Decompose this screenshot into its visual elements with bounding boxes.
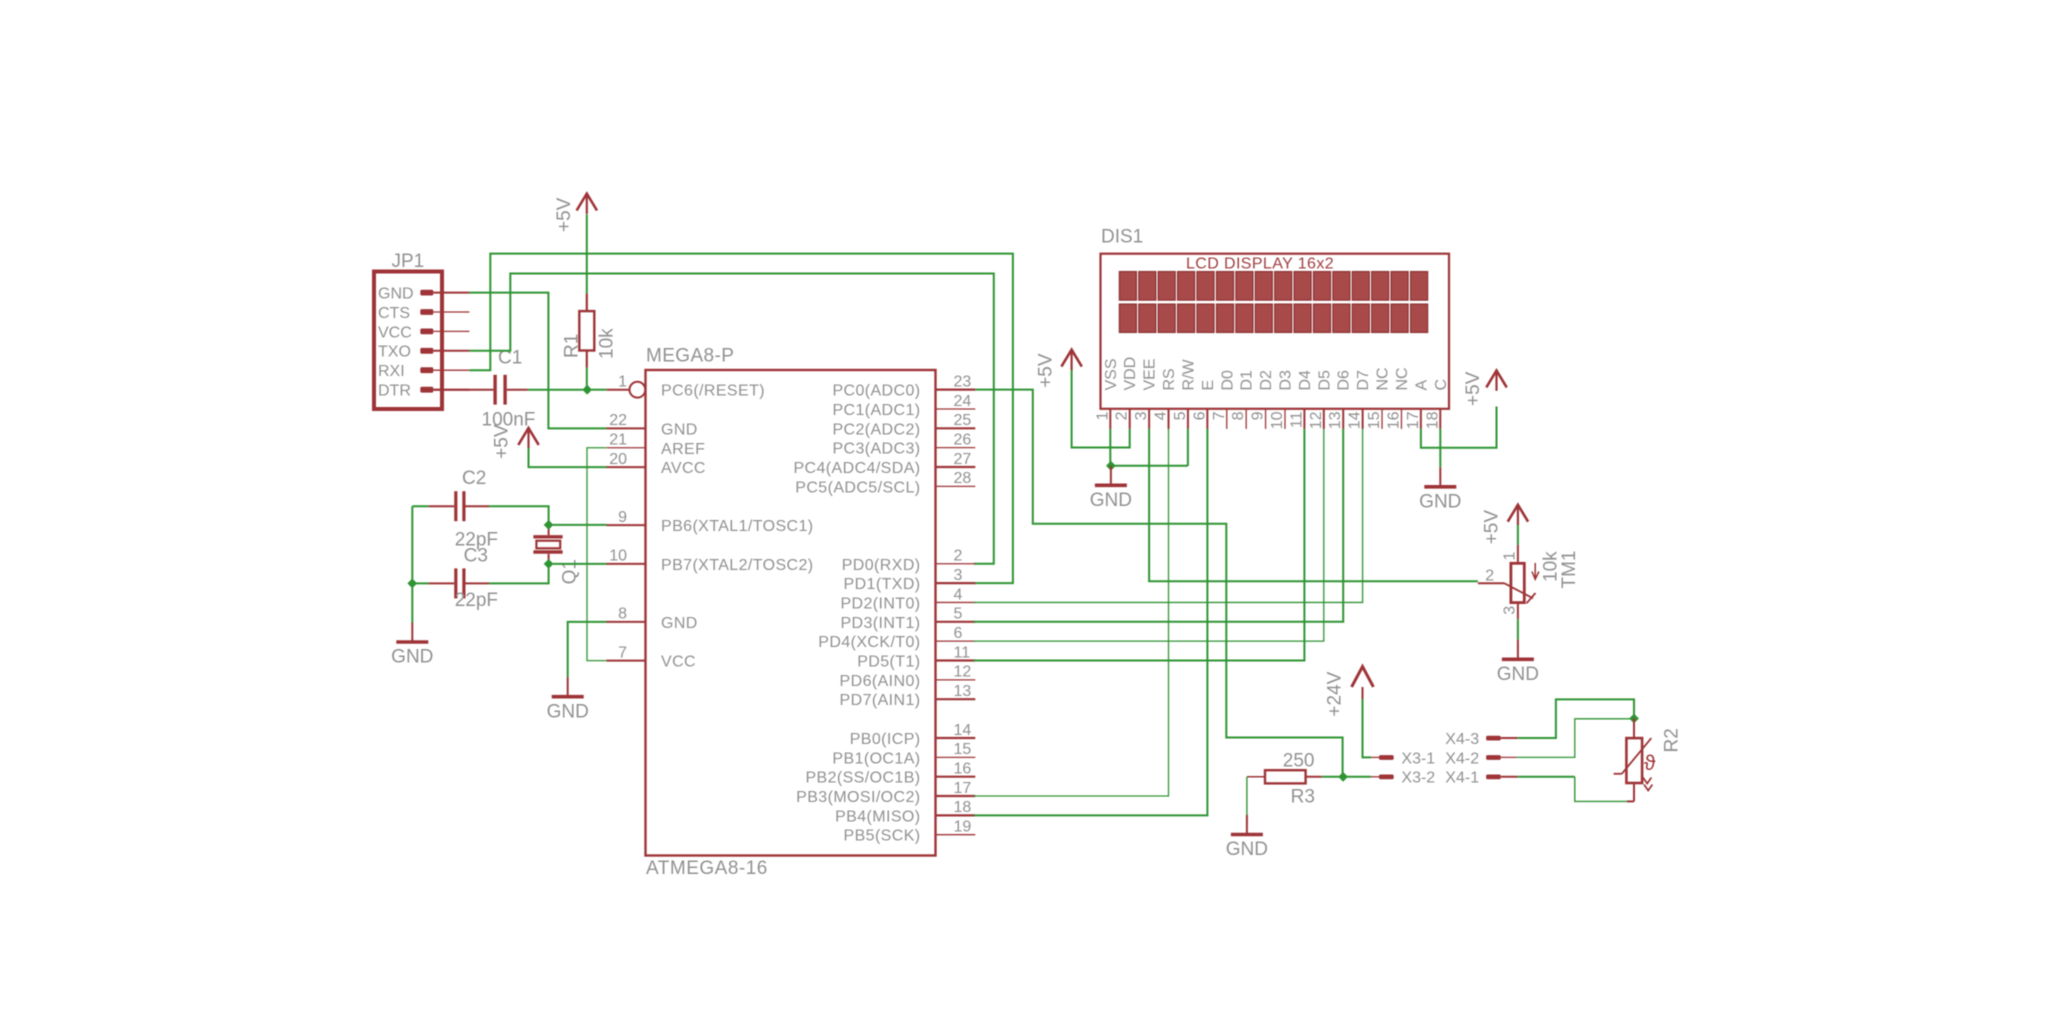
wire C2 to C3 left rail xyxy=(412,506,428,622)
pin 3 PD1(TXD) xyxy=(844,567,976,593)
svg-text:3: 3 xyxy=(1501,606,1518,615)
wire +5V to LCD pin 2 VDD xyxy=(1072,370,1130,448)
svg-text:13: 13 xyxy=(1327,411,1344,429)
svg-text:12: 12 xyxy=(1308,411,1325,429)
pin 17 PB3(MOSI/OC2) xyxy=(796,780,975,806)
pin 9 D2 xyxy=(1250,370,1276,429)
svg-text:10: 10 xyxy=(609,548,627,565)
svg-text:6: 6 xyxy=(1191,411,1208,420)
svg-text:TM1: TM1 xyxy=(1559,551,1580,589)
svg-text:A: A xyxy=(1413,380,1430,391)
wire LCD pin 18 C to ground xyxy=(1439,429,1441,467)
svg-text:PC4(ADC4/SDA): PC4(ADC4/SDA) xyxy=(793,460,920,477)
svg-text:GND: GND xyxy=(378,286,414,303)
pin 18 C xyxy=(1424,379,1450,429)
svg-text:12: 12 xyxy=(954,664,972,681)
svg-text:VEE: VEE xyxy=(1142,358,1159,390)
svg-text:6: 6 xyxy=(954,625,963,642)
power +5V (AVCC) xyxy=(491,424,538,459)
wire +5V to R1 xyxy=(586,214,588,293)
svg-text:10: 10 xyxy=(1269,411,1286,429)
junction RESET node xyxy=(582,385,592,395)
svg-text:2: 2 xyxy=(1114,411,1131,420)
svg-text:16: 16 xyxy=(1385,411,1402,429)
wire LCD pin 1 VSS to ground xyxy=(1110,429,1188,466)
svg-text:PB7(XTAL2/TOSC2): PB7(XTAL2/TOSC2) xyxy=(661,557,814,574)
svg-text:8: 8 xyxy=(618,606,627,623)
wire +24V to X3-1 xyxy=(1363,699,1372,757)
pin 11 D4 xyxy=(1288,370,1314,429)
junction R2 top node xyxy=(1629,714,1639,724)
svg-text:9: 9 xyxy=(1250,411,1267,420)
wire LCD D5 to IC pin 6 PD4 xyxy=(974,429,1324,641)
wire TM1 pin 3 to ground xyxy=(1517,619,1519,640)
pin 13 D6 xyxy=(1327,370,1353,429)
svg-text:R2: R2 xyxy=(1662,728,1683,752)
pin 2 PD0(RXD) xyxy=(842,548,976,574)
svg-text:D7: D7 xyxy=(1355,370,1372,391)
svg-text:D3: D3 xyxy=(1277,370,1294,391)
power +5V (LCD VDD) xyxy=(1035,350,1081,388)
svg-text:1: 1 xyxy=(1502,552,1519,561)
pin 16 PB2(SS/OC1B) xyxy=(805,761,975,787)
pin 12 D5 xyxy=(1308,370,1334,429)
pin 12 PD6(AIN0) xyxy=(840,664,976,690)
svg-text:VSS: VSS xyxy=(1103,358,1120,390)
power +5V (TM1) xyxy=(1481,505,1528,545)
svg-text:15: 15 xyxy=(1366,411,1383,429)
svg-text:D2: D2 xyxy=(1258,370,1275,391)
svg-text:C: C xyxy=(1433,379,1450,391)
svg-text:AREF: AREF xyxy=(661,441,705,458)
wire LCD D6 to IC pin 5 PD3 xyxy=(974,429,1343,622)
svg-text:X3-1: X3-1 xyxy=(1401,750,1435,767)
pin 2 VDD xyxy=(1114,357,1140,429)
svg-text:2: 2 xyxy=(954,548,963,565)
svg-text:PD1(TXD): PD1(TXD) xyxy=(844,576,921,593)
svg-text:28: 28 xyxy=(954,470,972,487)
svg-text:25: 25 xyxy=(954,412,972,429)
svg-text:VCC: VCC xyxy=(378,324,412,341)
pin 22 GND xyxy=(607,412,698,438)
wire LCD D7 to IC pin 4 PD2 xyxy=(974,429,1363,603)
svg-text:CTS: CTS xyxy=(378,305,410,322)
svg-text:PB0(ICP): PB0(ICP) xyxy=(850,731,921,748)
svg-text:PC6(/RESET): PC6(/RESET) xyxy=(661,383,765,400)
pin 4 PD2(INT0) xyxy=(840,586,975,612)
svg-text:4: 4 xyxy=(1153,411,1170,420)
pin 15 NC xyxy=(1366,367,1392,429)
pin 27 PC4(ADC4/SDA) xyxy=(793,451,975,477)
svg-text:17: 17 xyxy=(1405,411,1422,429)
svg-text:+5V: +5V xyxy=(554,197,575,232)
svg-text:5: 5 xyxy=(954,606,963,623)
svg-text:7: 7 xyxy=(1211,411,1228,420)
svg-text:PD5(T1): PD5(T1) xyxy=(857,654,920,671)
svg-text:PB4(MISO): PB4(MISO) xyxy=(835,808,920,825)
svg-text:27: 27 xyxy=(954,451,972,468)
svg-text:250: 250 xyxy=(1283,751,1315,772)
wire X4-1 to R2 bottom xyxy=(1518,777,1627,802)
pin 14 PB0(ICP) xyxy=(850,722,976,748)
wire RESET node to IC pin 1 xyxy=(592,389,607,391)
wire C3 right to XTAL2 node xyxy=(489,564,549,584)
wire X4-3 to R2 top xyxy=(1518,699,1634,738)
ground GND (crystal caps) xyxy=(391,623,433,668)
junction XTAL2 node xyxy=(544,559,554,569)
svg-text:9: 9 xyxy=(618,509,627,526)
pin 19 PB5(SCK) xyxy=(844,819,976,845)
svg-text:GND: GND xyxy=(1419,492,1461,513)
svg-text:PD7(AIN1): PD7(AIN1) xyxy=(840,692,921,709)
pin 18 PB4(MISO) xyxy=(835,799,975,825)
pin 23 PC0(ADC0) xyxy=(832,373,975,399)
svg-text:14: 14 xyxy=(954,722,972,739)
capacitor C3 22pF xyxy=(429,546,498,612)
svg-text:ϑ: ϑ xyxy=(1644,752,1656,775)
svg-text:GND: GND xyxy=(661,421,698,438)
pin 7 D0 xyxy=(1211,370,1237,429)
svg-text:C2: C2 xyxy=(462,468,486,489)
svg-text:10k: 10k xyxy=(596,328,617,359)
svg-text:PB6(XTAL1/TOSC1): PB6(XTAL1/TOSC1) xyxy=(661,518,814,535)
ground GND (R3) xyxy=(1226,815,1268,860)
wire R3 left to ground xyxy=(1246,777,1248,823)
connector pin X3-2 xyxy=(1371,770,1435,787)
svg-text:21: 21 xyxy=(609,432,627,449)
svg-text:D6: D6 xyxy=(1336,370,1353,391)
wire C2 right to XTAL1 node xyxy=(489,506,549,525)
svg-text:PC5(ADC5/SCL): PC5(ADC5/SCL) xyxy=(795,479,920,496)
wire XTAL1 node to IC pin 9 xyxy=(553,524,607,526)
svg-text:ATMEGA8-16: ATMEGA8-16 xyxy=(646,858,768,879)
svg-text:26: 26 xyxy=(954,431,972,448)
svg-text:D1: D1 xyxy=(1239,370,1256,391)
wire IC pin 23 PC0 to thermistor divider xyxy=(975,390,1342,777)
svg-text:D0: D0 xyxy=(1219,370,1236,391)
svg-text:7: 7 xyxy=(618,644,627,661)
pin 10 PB7(XTAL2/TOSC2) xyxy=(607,548,814,574)
svg-text:NC: NC xyxy=(1394,367,1411,390)
svg-text:22pF: 22pF xyxy=(455,590,498,611)
power +24V xyxy=(1325,667,1374,717)
ic U1 MEGA8-P xyxy=(607,346,976,880)
wire +5V to IC pin 20 AVCC xyxy=(529,448,607,467)
svg-text:3: 3 xyxy=(1133,411,1150,420)
svg-text:5: 5 xyxy=(1172,411,1189,420)
svg-text:PD0(RXD): PD0(RXD) xyxy=(842,557,921,574)
svg-text:X4-2: X4-2 xyxy=(1445,750,1479,767)
pin 4 RS xyxy=(1153,368,1179,429)
pin 28 PC5(ADC5/SCL) xyxy=(795,470,975,496)
wire C1 to RESET node xyxy=(528,389,583,391)
svg-text:PC3(ADC3): PC3(ADC3) xyxy=(832,441,920,458)
junction R3 / X3-2 / PC0 node xyxy=(1338,772,1348,782)
svg-text:+5V: +5V xyxy=(1481,510,1502,545)
wire XTAL2 node to IC pin 10 xyxy=(553,563,607,565)
svg-text:2: 2 xyxy=(1485,567,1494,584)
svg-text:DTR: DTR xyxy=(378,383,411,400)
svg-text:PC2(ADC2): PC2(ADC2) xyxy=(832,421,920,438)
pin 11 PD5(T1) xyxy=(857,644,975,670)
pin 1 VSS xyxy=(1094,358,1120,428)
crystal Q1 xyxy=(533,525,580,585)
pin 5 PD3(INT1) xyxy=(840,606,975,632)
svg-text:PD3(INT1): PD3(INT1) xyxy=(840,615,920,632)
svg-text:TXO: TXO xyxy=(378,344,411,361)
svg-text:1: 1 xyxy=(618,374,627,391)
svg-text:PC0(ADC0): PC0(ADC0) xyxy=(832,383,920,400)
svg-text:LCD DISPLAY 16x2: LCD DISPLAY 16x2 xyxy=(1186,256,1334,273)
svg-text:PC1(ADC1): PC1(ADC1) xyxy=(832,402,920,419)
pin 3 VEE xyxy=(1133,358,1159,428)
pin 6 E xyxy=(1191,380,1217,429)
pin 16 NC xyxy=(1385,367,1411,429)
svg-text:C3: C3 xyxy=(464,546,488,567)
svg-text:D5: D5 xyxy=(1316,370,1333,391)
resistor R3 250 xyxy=(1247,751,1322,808)
wire LCD pin 17 A to +5V xyxy=(1421,407,1497,448)
wire R3 to X3-2 junction xyxy=(1322,776,1371,778)
svg-text:17: 17 xyxy=(954,780,972,797)
svg-text:PB5(SCK): PB5(SCK) xyxy=(844,828,921,845)
svg-text:23: 23 xyxy=(954,373,972,390)
pin 8 D1 xyxy=(1230,370,1256,429)
svg-text:1: 1 xyxy=(1094,411,1111,420)
pin 26 PC3(ADC3) xyxy=(832,431,975,457)
pin 9 PB6(XTAL1/TOSC1) xyxy=(607,509,814,535)
svg-text:3: 3 xyxy=(954,567,963,584)
pin 1 PC6(/RESET) xyxy=(607,374,765,400)
svg-text:18: 18 xyxy=(1424,411,1441,429)
pin 10 D3 xyxy=(1269,370,1295,429)
svg-text:PD2(INT0): PD2(INT0) xyxy=(840,595,920,612)
junction C3 left / GND rail xyxy=(407,579,417,589)
svg-text:GND: GND xyxy=(391,647,433,668)
pin 21 AREF xyxy=(607,432,706,458)
svg-text:GND: GND xyxy=(1497,664,1539,685)
svg-text:R3: R3 xyxy=(1291,787,1315,808)
svg-text:E: E xyxy=(1200,380,1217,391)
pin 20 AVCC xyxy=(607,451,706,477)
svg-text:16: 16 xyxy=(954,761,972,778)
svg-text:RXI: RXI xyxy=(378,363,405,380)
wire IC pin 8 to ground xyxy=(568,622,607,677)
svg-text:GND: GND xyxy=(661,615,698,632)
svg-text:GND: GND xyxy=(1226,839,1268,860)
svg-text:+5V: +5V xyxy=(491,424,512,459)
wire R2 bottom pin xyxy=(1627,800,1634,802)
svg-text:X4-1: X4-1 xyxy=(1445,770,1479,787)
svg-text:+5V: +5V xyxy=(1463,371,1484,406)
svg-text:PD4(XCK/T0): PD4(XCK/T0) xyxy=(818,634,920,651)
svg-text:24: 24 xyxy=(954,393,972,410)
svg-text:20: 20 xyxy=(609,451,627,468)
capacitor C1 100nF xyxy=(433,348,535,431)
svg-text:NC: NC xyxy=(1375,367,1392,390)
svg-text:GND: GND xyxy=(547,701,589,722)
svg-text:PD6(AIN0): PD6(AIN0) xyxy=(840,673,921,690)
svg-text:PB1(OC1A): PB1(OC1A) xyxy=(832,750,920,767)
LCD character blocks xyxy=(1119,272,1427,333)
svg-text:VDD: VDD xyxy=(1122,357,1139,391)
svg-text:22: 22 xyxy=(609,412,627,429)
pin 25 PC2(ADC2) xyxy=(832,412,975,438)
ground GND (TM1) xyxy=(1497,640,1539,685)
connector pin X4-1 xyxy=(1445,770,1517,787)
pin 14 D7 xyxy=(1347,370,1373,429)
wire JP1 RXI to IC pin 3 TXD xyxy=(469,254,1013,583)
ground GND (LCD VSS) xyxy=(1090,466,1132,511)
svg-text:AVCC: AVCC xyxy=(661,460,706,477)
pin 6 PD4(XCK/T0) xyxy=(818,625,975,651)
connector pin X4-2 xyxy=(1445,750,1516,767)
svg-text:PB2(SS/OC1B): PB2(SS/OC1B) xyxy=(805,770,920,787)
pin 15 PB1(OC1A) xyxy=(832,741,975,767)
ground GND (IC pin 8) xyxy=(547,677,589,722)
wire R1 to RESET node xyxy=(586,368,588,390)
wire LCD D4 to IC pin 11 PD5 xyxy=(974,429,1305,661)
svg-text:4: 4 xyxy=(954,586,963,603)
ground GND (LCD backlight C) xyxy=(1419,467,1461,512)
power +5V (LCD backlight A) xyxy=(1463,371,1507,407)
pin 17 A xyxy=(1405,380,1431,430)
wire JP1 TXO to IC pin 2 RXD xyxy=(469,274,993,564)
svg-text:Q1: Q1 xyxy=(559,559,580,584)
power +5V (R1 pull-up) xyxy=(554,194,597,232)
thermistor R2 xyxy=(1614,719,1683,802)
resistor R1 10k xyxy=(561,294,617,368)
svg-text:18: 18 xyxy=(954,799,972,816)
svg-text:VCC: VCC xyxy=(661,654,696,671)
wire +5V to TM1 pin 1 xyxy=(1517,525,1519,545)
svg-text:R1: R1 xyxy=(561,334,582,358)
wire LCD VEE to TM1 wiper xyxy=(1149,429,1478,581)
svg-text:R/W: R/W xyxy=(1180,359,1197,391)
svg-text:14: 14 xyxy=(1347,411,1364,429)
svg-text:15: 15 xyxy=(954,741,972,758)
svg-text:+24V: +24V xyxy=(1325,671,1346,716)
svg-text:13: 13 xyxy=(954,683,972,700)
svg-text:8: 8 xyxy=(1230,411,1247,420)
svg-text:D4: D4 xyxy=(1297,370,1314,391)
capacitor C2 22pF xyxy=(429,468,498,551)
pin 5 R/W xyxy=(1172,359,1198,429)
svg-text:X3-2: X3-2 xyxy=(1401,770,1435,787)
connector JP1 xyxy=(374,251,469,409)
connector pin X3-1 xyxy=(1371,750,1435,767)
junction LCD VSS ground node xyxy=(1106,461,1116,471)
wire IC pin 21 AREF to IC pin 7 VCC xyxy=(587,448,607,661)
wire LCD RS to IC pin 17 PB3 xyxy=(974,429,1169,796)
wire JP1 GND to IC pin 22 xyxy=(469,293,606,429)
junction XTAL1 node xyxy=(544,520,554,530)
trimmer TM1 10k xyxy=(1478,545,1580,619)
svg-text:+5V: +5V xyxy=(1035,353,1056,388)
pin 24 PC1(ADC1) xyxy=(832,393,975,419)
pin 8 GND xyxy=(607,606,698,632)
svg-text:GND: GND xyxy=(1090,490,1132,511)
svg-text:RS: RS xyxy=(1161,368,1178,390)
svg-text:19: 19 xyxy=(954,819,972,836)
svg-text:11: 11 xyxy=(954,644,971,661)
svg-text:MEGA8-P: MEGA8-P xyxy=(646,346,734,367)
svg-text:DIS1: DIS1 xyxy=(1101,227,1143,248)
svg-text:JP1: JP1 xyxy=(392,251,425,272)
wire LCD E to IC pin 18 PB4 xyxy=(974,429,1208,815)
pin 13 PD7(AIN1) xyxy=(840,683,976,709)
connector pin X4-3 xyxy=(1445,731,1517,748)
svg-text:11: 11 xyxy=(1288,411,1305,428)
svg-text:PB3(MOSI/OC2): PB3(MOSI/OC2) xyxy=(796,789,920,806)
wire X4-2 to R2 top xyxy=(1517,719,1634,758)
display DIS1 LCD 16x2 xyxy=(1094,227,1449,430)
svg-text:X4-3: X4-3 xyxy=(1445,731,1479,748)
pin 7 VCC xyxy=(607,644,696,670)
